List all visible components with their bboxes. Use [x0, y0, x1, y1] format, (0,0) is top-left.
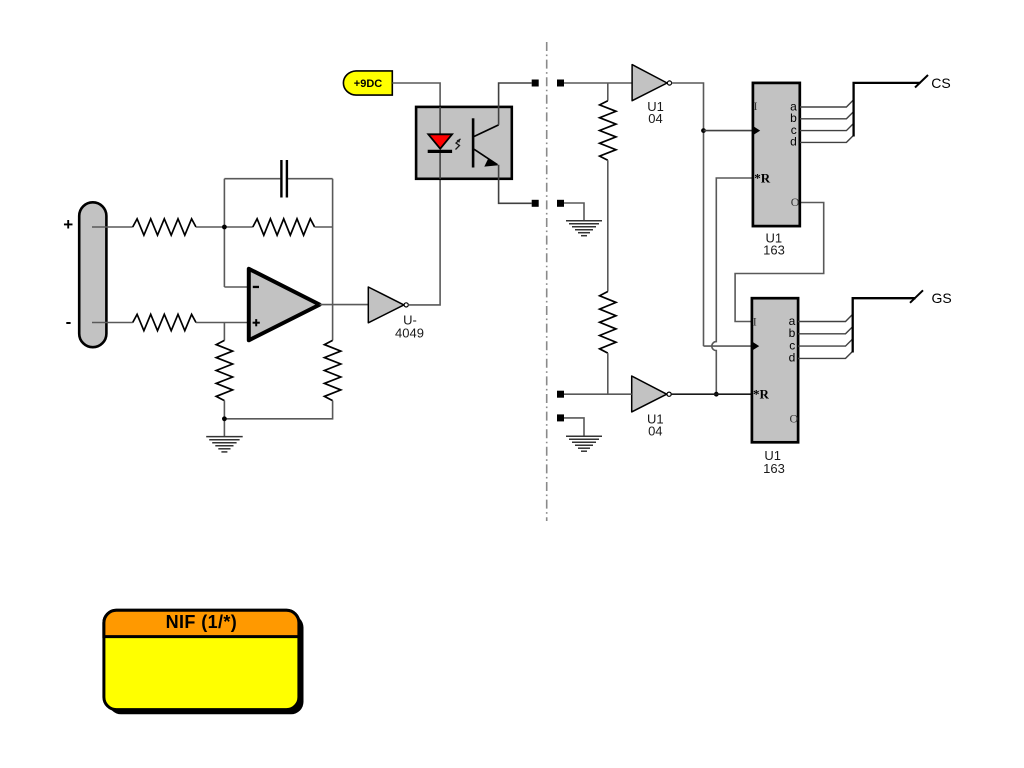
wire U6 pin c	[798, 339, 853, 346]
svg-text:*R: *R	[754, 170, 771, 185]
wire - pin to R3	[92, 322, 133, 324]
svg-text:I: I	[753, 315, 757, 329]
U6 pin label d	[789, 351, 796, 365]
label CS	[931, 75, 950, 91]
label - (connector pin 2)	[66, 312, 72, 331]
junction *R net	[714, 392, 719, 397]
wire clock to counter U6	[704, 345, 752, 347]
light coupling symbol	[456, 139, 461, 150]
U6 pin label *R	[753, 386, 770, 401]
terminal TP5	[557, 391, 564, 398]
resistor R4	[216, 340, 232, 400]
svg-text:4049: 4049	[395, 326, 424, 341]
wire inverting input	[224, 286, 248, 288]
buffer U3 (U-4049)	[368, 287, 408, 323]
bus to GS	[853, 298, 916, 352]
isolation boundary (dash-dot separator)	[546, 42, 548, 521]
junction node A	[222, 225, 227, 230]
bus to CS	[854, 83, 921, 137]
label U1B	[647, 412, 664, 439]
ground GND2	[566, 221, 602, 236]
wire R4 to ground junction	[223, 401, 225, 437]
U5 clock arrow	[754, 126, 761, 134]
GS switch slash	[910, 290, 923, 303]
U5 pin label b	[790, 111, 797, 125]
svg-text:I: I	[754, 99, 758, 113]
resistor R3	[133, 314, 196, 330]
terminal TP4	[557, 200, 564, 207]
ground GND1	[206, 437, 243, 452]
LED D1 anode wire	[439, 107, 441, 134]
ground GND3	[566, 436, 602, 451]
wire U6 pin a	[798, 314, 853, 321]
U5 pin label a	[790, 99, 797, 113]
wire emitter to terminal	[499, 165, 532, 204]
resistor R2 feedback	[253, 219, 315, 235]
label U-4049	[395, 313, 424, 341]
wire buffer output to LED cathode	[408, 179, 440, 305]
U5 pin label *R	[754, 170, 771, 185]
wire node B vertical	[332, 179, 334, 341]
svg-text:O: O	[791, 195, 800, 209]
connector J1	[79, 202, 106, 347]
U6 pin label b	[789, 326, 796, 340]
svg-text:-: -	[66, 312, 72, 331]
wire feedback top right	[288, 178, 333, 180]
svg-text:163: 163	[763, 461, 785, 476]
resistor R5	[324, 340, 340, 400]
svg-text:CS: CS	[931, 75, 950, 91]
NIF note body	[104, 610, 299, 709]
junction clock branch	[701, 128, 706, 133]
svg-text:+9DC: +9DC	[354, 78, 382, 90]
wire TP2 to inverter U1A input	[564, 82, 632, 84]
wire R5 bottom to junction	[224, 401, 332, 419]
svg-text:d: d	[790, 135, 797, 149]
terminal TP2	[557, 80, 564, 87]
wire U5 pin a	[800, 100, 854, 107]
wire feedback top left	[224, 178, 280, 180]
wire TP6 to ground GND3	[564, 418, 584, 436]
terminal TP3	[532, 200, 539, 207]
LED D1 cathode wire	[439, 153, 441, 179]
NIF note shadow	[109, 615, 304, 714]
op-amp U2	[249, 269, 320, 341]
svg-text:GS: GS	[932, 290, 952, 306]
NIF note title	[166, 612, 238, 632]
wire TP5 to U1B input	[564, 393, 632, 395]
wire + pin to R1	[92, 226, 133, 228]
U5 pin label d	[790, 135, 797, 149]
capacitor C1	[281, 160, 287, 198]
label U1A	[647, 99, 664, 126]
wire U6 pin b	[798, 327, 853, 334]
wire + input down to R4	[223, 323, 225, 341]
wire collector to terminal	[499, 83, 532, 125]
terminal TP6	[557, 414, 564, 421]
U6 pin label c	[789, 338, 795, 352]
wire U5 pin c	[800, 123, 854, 130]
wire +9DC to LED anode	[392, 83, 440, 107]
inverter U1B (U1 04)	[632, 376, 672, 412]
wire op-amp output	[320, 304, 369, 306]
svg-text:04: 04	[648, 111, 662, 126]
resistor R6	[600, 101, 616, 161]
U6 pin label a	[789, 314, 796, 328]
wire U5 pin b	[800, 112, 854, 119]
LED D1	[428, 134, 452, 151]
U6 clock arrow	[753, 342, 760, 350]
resistor R1	[133, 219, 196, 235]
svg-text:04: 04	[648, 424, 662, 439]
wire R7 to *R net	[607, 353, 609, 394]
svg-text:d: d	[789, 351, 796, 365]
counter U6 (U1 163) body	[752, 298, 798, 442]
wire U5 output O to U6 input I	[735, 203, 824, 322]
wire clock to counter U5	[704, 130, 753, 132]
phototransistor Q1	[473, 118, 499, 167]
wire R6 to R7	[607, 160, 609, 291]
wire TP4 to ground GND2	[564, 203, 584, 221]
wire R2 to node B	[315, 226, 333, 228]
optocoupler U4 body	[416, 107, 512, 179]
wire U6 pin d	[798, 351, 853, 358]
svg-text:NIF (1/*): NIF (1/*)	[166, 612, 238, 632]
wire R3 to non-inverting input	[196, 322, 249, 324]
svg-text:O: O	[790, 411, 799, 425]
wire down to R6	[607, 83, 609, 101]
wire *R net with hop	[712, 178, 753, 394]
label U6 refdes	[763, 448, 785, 476]
terminal TP1	[532, 80, 539, 87]
inverter U1A (U1 04)	[632, 65, 672, 101]
U5 pin label O	[791, 195, 800, 209]
wire U1A output down	[672, 83, 704, 346]
U5 pin label c	[791, 123, 797, 137]
label + (connector pin 1)	[63, 215, 73, 234]
svg-text:+: +	[63, 215, 73, 234]
wire U1B output to *R pins	[671, 393, 752, 395]
label GS	[932, 290, 952, 306]
counter U5 (U1 163) body	[753, 83, 800, 226]
U5 pin label I	[754, 99, 758, 113]
junction ground node	[222, 416, 227, 421]
svg-text:*R: *R	[753, 386, 770, 401]
power flag +9DC	[343, 71, 392, 95]
svg-text:163: 163	[763, 242, 785, 257]
wire U5 pin d	[800, 135, 854, 142]
U6 pin label O	[790, 411, 799, 425]
label U5 refdes	[763, 230, 785, 257]
resistor R7	[600, 292, 616, 354]
U6 pin label I	[753, 315, 757, 329]
wire node A vertical	[223, 179, 225, 287]
wire R1 to node A	[196, 226, 253, 228]
CS switch slash	[915, 75, 928, 88]
